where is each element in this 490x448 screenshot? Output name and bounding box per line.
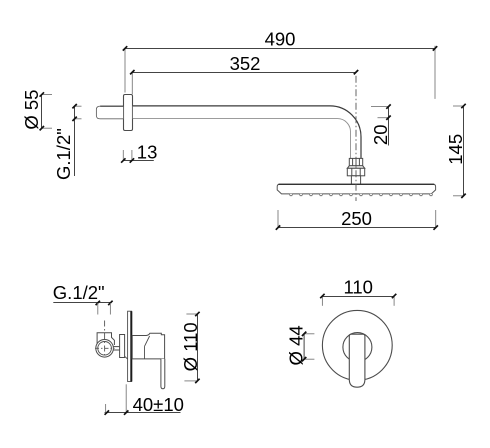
dimension G.1/2 inch (arm inlet) (53, 104, 81, 180)
dimension 110 (escutcheon) (320, 277, 396, 306)
svg-text:352: 352 (230, 53, 261, 74)
svg-text:110: 110 (343, 277, 373, 298)
svg-text:40±10: 40±10 (133, 394, 184, 415)
escutcheon circle (322, 310, 392, 380)
valve union nut circle (96, 340, 114, 358)
centerline of drop (355, 76, 357, 201)
handle base circle (343, 333, 372, 362)
wall mounting block (120, 335, 125, 358)
handle body seam diagonal (145, 336, 150, 346)
connector neck (351, 176, 360, 185)
svg-text:20: 20 (370, 125, 391, 146)
dimension 490 (123, 29, 437, 99)
svg-text:250: 250 (341, 208, 372, 229)
dimension 13 (flange depth) (121, 142, 157, 163)
cartridge and handle body (132, 333, 164, 359)
svg-text:G.1/2": G.1/2" (53, 128, 74, 180)
dimension 145 (head drop) (445, 104, 466, 198)
dimension D55 (flange) (21, 90, 52, 131)
handle lever (side) (161, 359, 165, 389)
connector flare (347, 166, 364, 169)
svg-text:13: 13 (137, 142, 158, 163)
svg-text:Ø 55: Ø 55 (21, 90, 42, 130)
handle lever (front) (349, 334, 365, 387)
dimension D110 (plate) (180, 312, 201, 383)
valve elbow body (97, 333, 114, 345)
dimension D44 (handle base) (285, 325, 314, 365)
union nut crosshair (95, 347, 115, 349)
svg-text:490: 490 (265, 29, 296, 50)
dimension 250 (head width) (276, 208, 438, 230)
inlet stub pipe G1/2 (96, 106, 123, 119)
shower head nozzles (290, 194, 433, 196)
svg-text:G.1/2": G.1/2" (53, 282, 105, 303)
svg-text:145: 145 (445, 134, 466, 165)
svg-text:Ø 110: Ø 110 (180, 322, 201, 371)
connector nut lower (347, 168, 364, 176)
handle body seam vertical (144, 346, 146, 359)
shower head body (277, 184, 435, 194)
dimension 20 (arm tube) (370, 104, 391, 145)
label G.1/2 inch (valve inlet) (53, 282, 113, 315)
dimension 352 (130, 53, 358, 94)
escutcheon plate (side) (128, 311, 132, 381)
dimension 40±10 (wall depth) (105, 384, 184, 415)
valve outlet pipe (113, 347, 119, 350)
wall flange (124, 95, 133, 131)
block-plate joint (125, 356, 128, 359)
valve inlet centerline (104, 321, 106, 358)
shower arm tube with bend (133, 106, 361, 159)
connector nut upper (349, 158, 362, 165)
svg-text:Ø 44: Ø 44 (285, 325, 306, 365)
